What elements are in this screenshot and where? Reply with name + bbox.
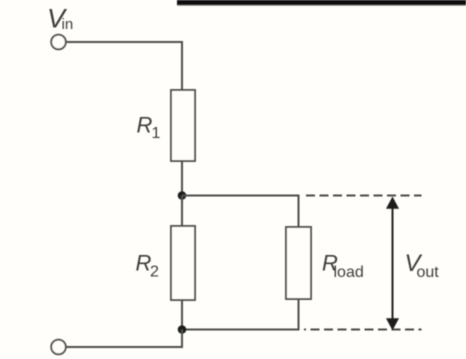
label R2 (136, 251, 160, 281)
svg-text:load: load (334, 264, 364, 281)
label R1 (137, 112, 161, 142)
svg-text:1: 1 (152, 125, 161, 142)
wire R1 bottom to node A (181, 161, 183, 196)
resistor R1 (171, 90, 195, 161)
wire node B to output terminal (66, 330, 182, 348)
terminal input (open circle) (51, 35, 66, 50)
wire node A to Rload top (182, 196, 299, 228)
Vout measurement arrow (386, 197, 399, 331)
wire Rload bottom to node B (182, 299, 299, 330)
label Rload (322, 251, 364, 281)
dashed reference line bottom (304, 329, 422, 331)
dashed reference line top (306, 195, 422, 197)
svg-text:2: 2 (150, 263, 159, 280)
node A (junction dot) (178, 191, 187, 200)
label Vout (405, 250, 440, 281)
label Vin (47, 3, 73, 33)
terminal output (open circle) (51, 340, 66, 355)
resistor Rload (286, 227, 311, 299)
svg-text:out: out (417, 264, 440, 281)
wire node A to R2 top (181, 196, 183, 227)
svg-text:R: R (137, 112, 153, 137)
node B (junction dot) (178, 325, 187, 334)
wire R2 bottom to node B (181, 300, 183, 330)
wire input terminal to R1 top (66, 42, 182, 90)
svg-text:in: in (62, 16, 74, 33)
resistor R2 (171, 226, 195, 300)
black header bar (177, 0, 466, 6)
